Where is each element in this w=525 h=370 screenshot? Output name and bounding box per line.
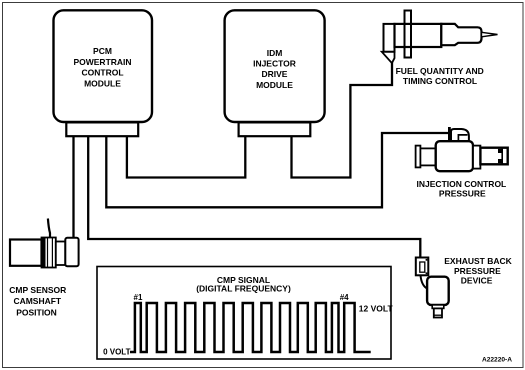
ICP pin: [448, 127, 451, 140]
svg-text:PRESSURE: PRESSURE: [439, 188, 486, 198]
svg-text:CONTROL: CONTROL: [81, 68, 123, 78]
ICP left nipple: [420, 148, 435, 165]
wire IDM pin 2 to fuel quantity and timing control: [292, 62, 393, 178]
fuel quantity and timing control injector: [382, 11, 498, 86]
ICP elbow boot: [451, 129, 469, 141]
svg-text:POSITION: POSITION: [16, 308, 57, 318]
svg-text:FUEL QUANTITY AND: FUEL QUANTITY AND: [396, 66, 484, 76]
EBP connector: [416, 258, 429, 276]
CMP stub wire: [48, 219, 50, 239]
svg-text:MODULE: MODULE: [256, 80, 293, 90]
svg-text:DRIVE: DRIVE: [262, 69, 288, 79]
CMP signal waveform box: [97, 267, 393, 360]
svg-text:MODULE: MODULE: [84, 78, 121, 88]
wire PCM pin 1 to CMP sensor: [72, 136, 74, 238]
svg-text:TIMING CONTROL: TIMING CONTROL: [403, 76, 477, 86]
ICP left cap: [416, 146, 421, 168]
connector IDM: [239, 122, 311, 136]
svg-text:#4: #4: [340, 293, 349, 302]
svg-text:#1: #1: [134, 293, 143, 302]
wire PCM pin 2 to exhaust back pressure device: [88, 136, 420, 258]
injector needle: [482, 32, 498, 37]
svg-text:POWERTRAIN: POWERTRAIN: [73, 57, 131, 67]
EBP curved wire: [421, 275, 428, 288]
wire PCM pin 3 to injection control pressure: [106, 133, 448, 207]
CMP body: [10, 240, 42, 266]
wire PCM pin 4 to IDM pin 1: [127, 136, 245, 178]
module IDM: [225, 10, 325, 122]
EBP lip: [432, 305, 444, 309]
svg-text:INJECTOR: INJECTOR: [253, 59, 296, 69]
waveform square wave: [130, 303, 371, 352]
exhaust back pressure device: [416, 256, 513, 317]
svg-text:PRESSURE: PRESSURE: [454, 266, 501, 276]
svg-text:CAMSHAFT: CAMSHAFT: [13, 296, 61, 306]
svg-text:12 VOLT: 12 VOLT: [359, 304, 394, 314]
svg-text:IDM: IDM: [267, 48, 283, 58]
ICP collar: [473, 146, 480, 169]
svg-text:0 VOLT: 0 VOLT: [103, 348, 131, 357]
injector connector: [384, 24, 395, 52]
ICP body: [436, 141, 473, 171]
module PCM: [54, 10, 153, 122]
CMP flange: [42, 238, 56, 268]
injection control pressure sensor: [416, 127, 508, 198]
injector body: [395, 24, 442, 47]
connector PCM: [66, 122, 138, 136]
svg-text:CMP SENSOR: CMP SENSOR: [9, 285, 66, 295]
svg-text:A22220-A: A22220-A: [482, 357, 512, 364]
injector flange: [405, 11, 412, 58]
ICP socket end: [480, 148, 507, 165]
svg-text:PCM: PCM: [93, 46, 112, 56]
CMP connector: [65, 238, 78, 267]
EBP foot: [434, 308, 442, 317]
svg-text:DEVICE: DEVICE: [461, 276, 493, 286]
EBP body: [427, 277, 449, 305]
svg-text:EXHAUST BACK: EXHAUST BACK: [444, 256, 512, 266]
injector nozzle: [441, 24, 481, 45]
svg-text:(DIGITAL FREQUENCY): (DIGITAL FREQUENCY): [196, 283, 291, 293]
CMP camshaft position sensor: [9, 219, 78, 318]
CMP middle segment: [56, 242, 66, 266]
